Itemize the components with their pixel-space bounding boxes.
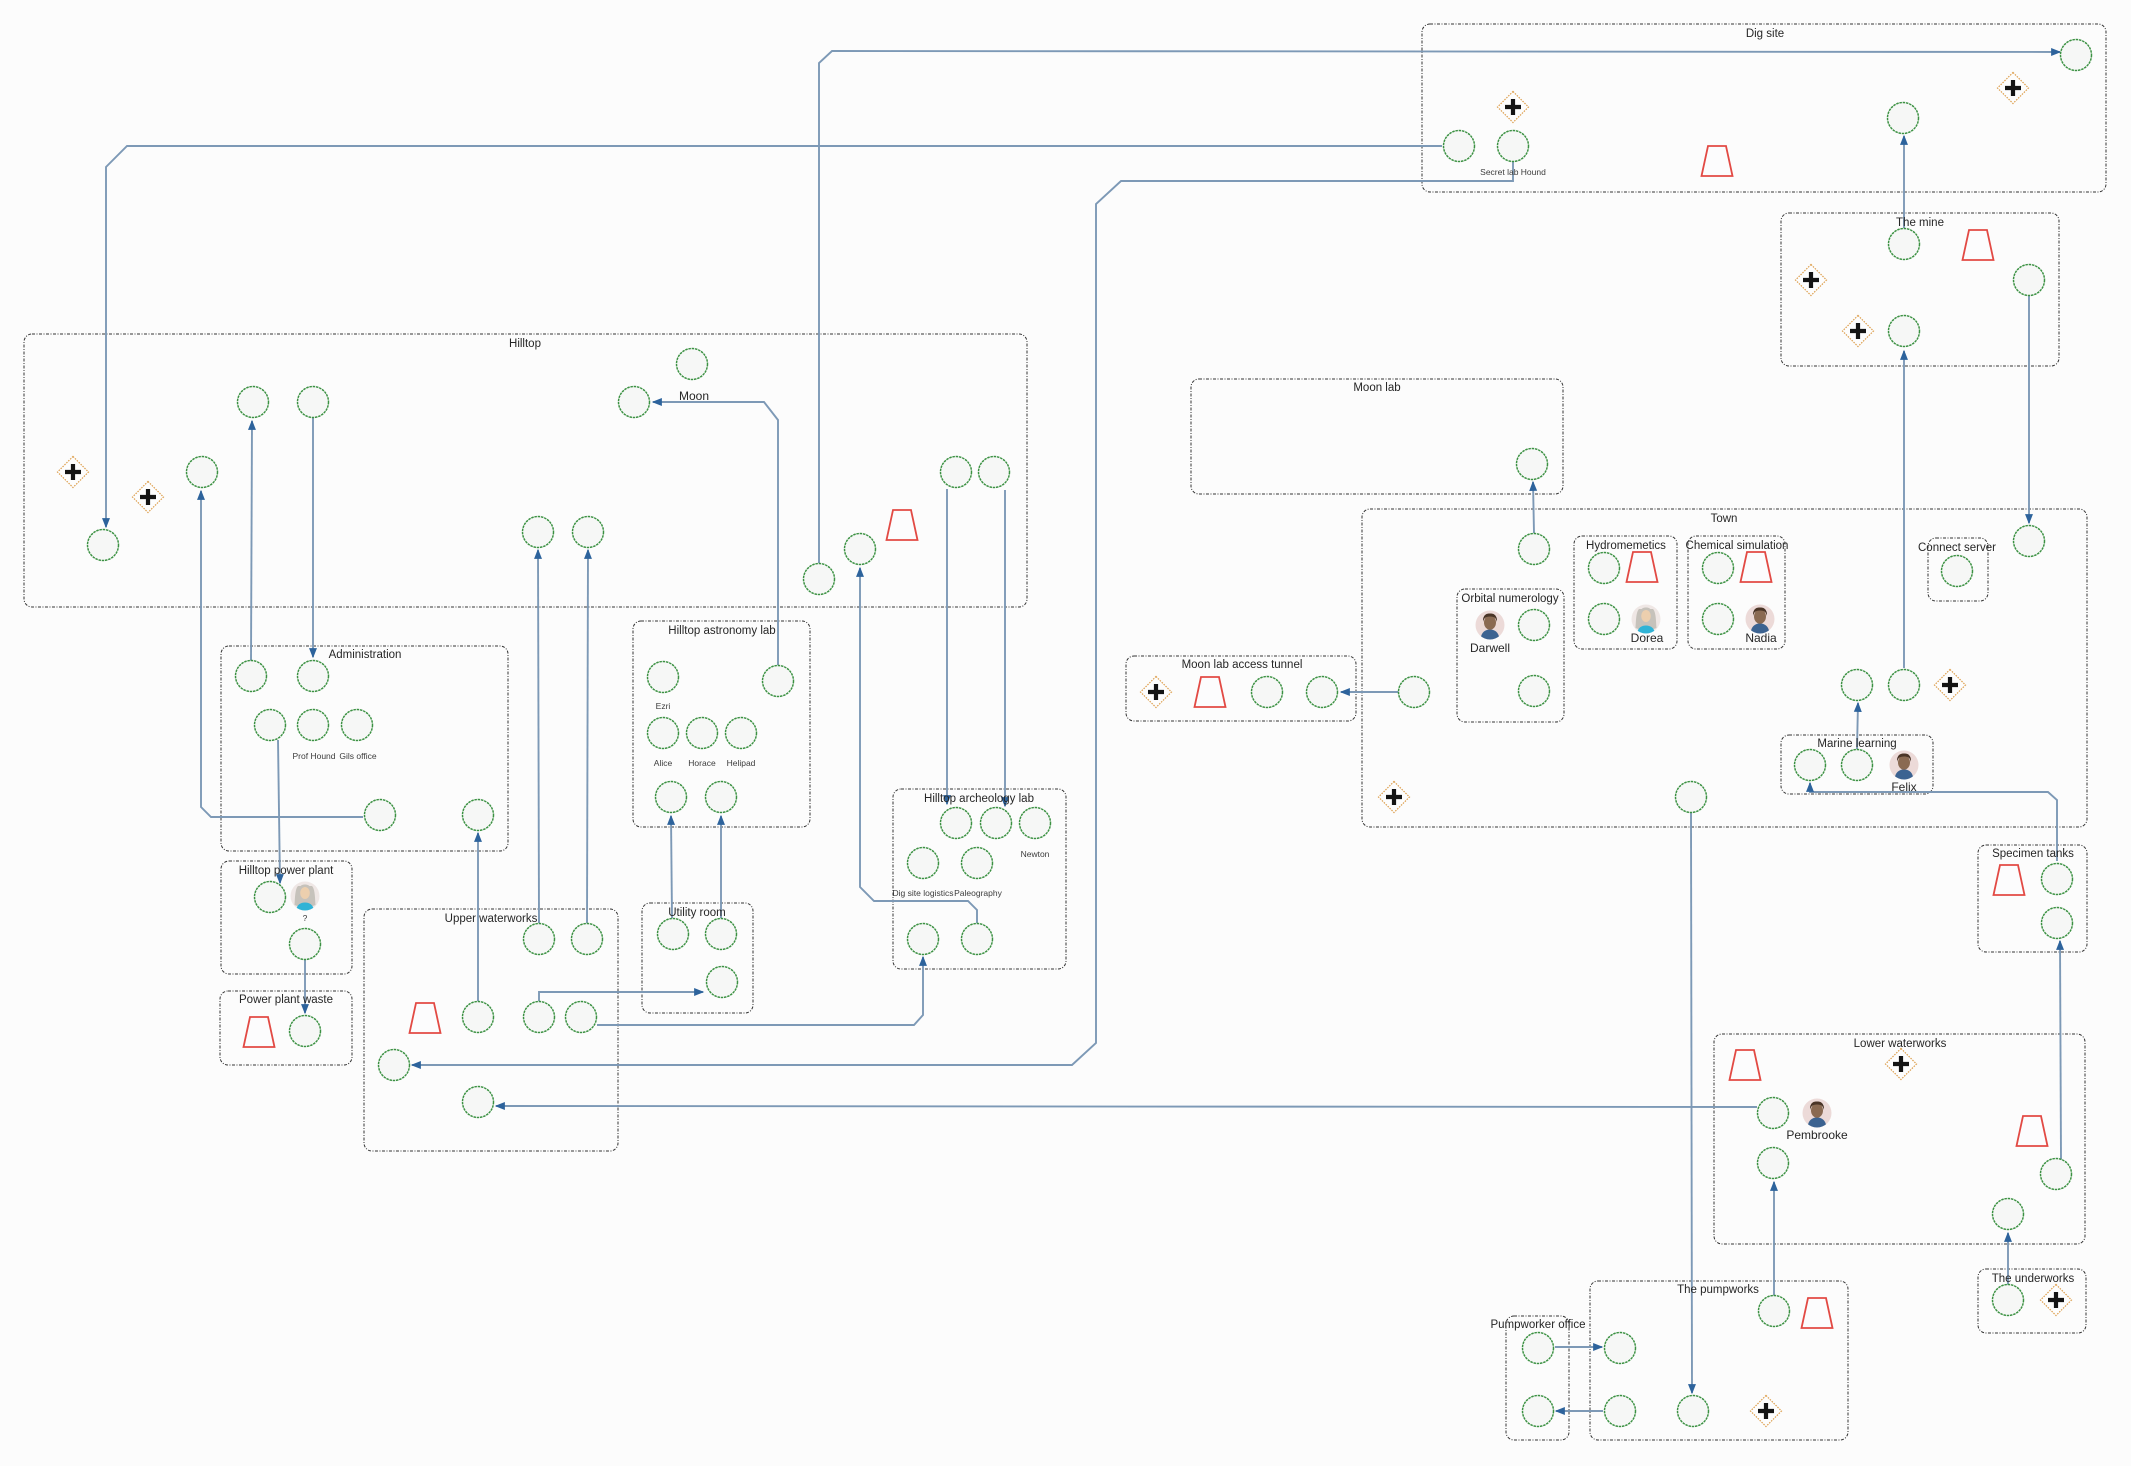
- svg-text:Newton: Newton: [1021, 849, 1050, 859]
- svg-text:Dig site: Dig site: [1746, 28, 1784, 40]
- svg-text:Utility room: Utility room: [668, 907, 726, 919]
- svg-text:Hilltop archeology lab: Hilltop archeology lab: [924, 793, 1034, 805]
- svg-text:Pumpworker office: Pumpworker office: [1490, 1319, 1585, 1331]
- svg-text:Town: Town: [1711, 513, 1738, 525]
- svg-text:Hilltop astronomy lab: Hilltop astronomy lab: [668, 625, 775, 637]
- svg-text:Lower waterworks: Lower waterworks: [1854, 1038, 1947, 1050]
- svg-text:Hydromemetics: Hydromemetics: [1586, 540, 1666, 552]
- svg-text:Marine learning: Marine learning: [1817, 738, 1896, 750]
- svg-text:Paleography: Paleography: [954, 888, 1002, 898]
- svg-text:Orbital numerology: Orbital numerology: [1461, 593, 1558, 605]
- svg-text:Nadia: Nadia: [1745, 631, 1777, 645]
- svg-text:Moon lab: Moon lab: [1353, 382, 1400, 394]
- svg-text:Ezri: Ezri: [656, 701, 671, 711]
- svg-text:Moon lab access tunnel: Moon lab access tunnel: [1182, 659, 1303, 671]
- svg-text:Hilltop power plant: Hilltop power plant: [239, 865, 334, 877]
- svg-text:Pembrooke: Pembrooke: [1786, 1128, 1848, 1142]
- svg-text:Darwell: Darwell: [1470, 641, 1510, 655]
- svg-text:Gils office: Gils office: [339, 751, 376, 761]
- svg-text:Hilltop: Hilltop: [509, 338, 541, 350]
- svg-text:Prof Hound: Prof Hound: [293, 751, 336, 761]
- svg-text:Power plant waste: Power plant waste: [239, 994, 333, 1006]
- svg-text:Dig site logistics: Dig site logistics: [893, 888, 954, 898]
- svg-text:The underworks: The underworks: [1992, 1273, 2075, 1285]
- svg-text:Alice: Alice: [654, 758, 673, 768]
- svg-text:Horace: Horace: [688, 758, 716, 768]
- svg-text:Felix: Felix: [1891, 780, 1916, 794]
- svg-text:Connect server: Connect server: [1918, 542, 1996, 554]
- svg-text:The pumpworks: The pumpworks: [1677, 1284, 1759, 1296]
- svg-text:Chemical simulation: Chemical simulation: [1686, 540, 1789, 552]
- svg-text:Specimen tanks: Specimen tanks: [1992, 848, 2074, 860]
- svg-text:Administration: Administration: [329, 649, 402, 661]
- svg-text:Secret lab Hound: Secret lab Hound: [1480, 167, 1546, 177]
- svg-text:?: ?: [303, 913, 308, 923]
- svg-text:Moon: Moon: [679, 389, 709, 403]
- svg-text:Helipad: Helipad: [727, 758, 756, 768]
- svg-text:Dorea: Dorea: [1631, 631, 1664, 645]
- svg-text:The mine: The mine: [1896, 217, 1944, 229]
- svg-text:Upper waterworks: Upper waterworks: [445, 913, 538, 925]
